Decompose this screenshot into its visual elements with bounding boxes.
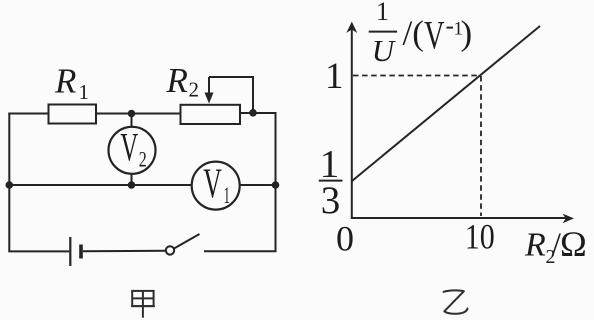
wire top left to R1 bbox=[8, 113, 49, 115]
wire middle left bbox=[8, 184, 192, 186]
switch pivot bbox=[166, 246, 174, 254]
dashed guide vertical at 10 bbox=[480, 76, 482, 216]
svg-text:2: 2 bbox=[139, 147, 147, 172]
wire middle right bbox=[240, 184, 276, 186]
svg-text:Ω: Ω bbox=[560, 224, 587, 264]
node junction right middle bbox=[272, 181, 280, 189]
y-axis arrowhead bbox=[346, 22, 357, 33]
svg-text:R: R bbox=[54, 62, 76, 101]
label V1 bbox=[203, 162, 230, 209]
svg-text:1: 1 bbox=[325, 56, 344, 97]
slider arrow shaft bbox=[208, 77, 210, 94]
y-axis bbox=[351, 29, 566, 218]
dashed guide horizontal at 1 bbox=[353, 75, 481, 77]
wire right vertical bbox=[275, 112, 277, 251]
svg-text:1: 1 bbox=[376, 0, 389, 26]
svg-text:/(: /( bbox=[403, 14, 424, 53]
label jia (caption of left figure) bbox=[131, 291, 155, 318]
battery long plate bbox=[69, 237, 71, 266]
svg-text:V: V bbox=[120, 125, 138, 170]
svg-text:1: 1 bbox=[79, 80, 90, 104]
wire bottom left to battery bbox=[8, 250, 69, 252]
label yi (caption of right figure) bbox=[444, 290, 468, 313]
y-axis label fraction 1/U bbox=[369, 0, 397, 68]
node junction V2 bottom bbox=[128, 181, 136, 189]
svg-text:V: V bbox=[203, 162, 222, 208]
y-axis unit /(V^-1) bbox=[403, 12, 473, 57]
wire R1 to R2 bbox=[96, 113, 182, 115]
switch lever bbox=[174, 234, 200, 249]
label R1 bbox=[54, 62, 89, 105]
label R2 bbox=[166, 61, 200, 102]
wire switch to right corner bbox=[204, 250, 277, 252]
plotted line 1/U vs R2 bbox=[352, 26, 540, 181]
y-axis label fraction 1/3 bbox=[319, 142, 343, 222]
svg-text:V: V bbox=[424, 12, 445, 57]
svg-text:2: 2 bbox=[189, 78, 200, 102]
node junction top (V2 top) bbox=[128, 110, 136, 118]
svg-text:U: U bbox=[372, 33, 397, 68]
wire R2 to right corner bbox=[240, 112, 276, 114]
wire battery to switch bbox=[83, 250, 166, 252]
node junction left middle bbox=[6, 181, 14, 189]
wire V2 top branch bbox=[131, 114, 133, 128]
slider arrowhead bbox=[205, 93, 214, 104]
voltmeter V2 bbox=[109, 127, 156, 174]
wire slider bracket bbox=[209, 77, 253, 110]
x-axis arrowhead bbox=[563, 214, 575, 224]
resistor R1 bbox=[49, 105, 97, 124]
voltmeter V1 bbox=[192, 162, 240, 210]
resistor R2 bbox=[181, 105, 241, 124]
svg-text:1: 1 bbox=[224, 183, 231, 208]
x-axis bbox=[351, 217, 566, 219]
wire V2 bottom branch bbox=[131, 174, 133, 185]
label V2 bbox=[120, 125, 147, 172]
svg-text:R: R bbox=[166, 61, 188, 100]
svg-text:0: 0 bbox=[336, 218, 354, 258]
svg-text:R: R bbox=[524, 227, 546, 264]
svg-text:10: 10 bbox=[465, 217, 495, 257]
battery short plate bbox=[79, 245, 83, 259]
x-axis label R2/ohm bbox=[524, 224, 587, 268]
wire left vertical bbox=[8, 114, 10, 252]
svg-text:): ) bbox=[461, 14, 473, 53]
svg-text:3: 3 bbox=[321, 179, 341, 222]
node junction R2 slider bbox=[249, 109, 257, 117]
